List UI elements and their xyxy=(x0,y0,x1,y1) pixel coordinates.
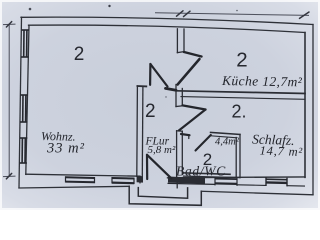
svg-text:2: 2 xyxy=(236,49,247,72)
svg-text:4,4m²: 4,4m² xyxy=(215,137,240,148)
svg-text:33 m²: 33 m² xyxy=(46,141,85,157)
svg-text:2: 2 xyxy=(145,101,156,122)
svg-text:Bad/WC: Bad/WC xyxy=(176,164,226,179)
svg-text:5,8 m²: 5,8 m² xyxy=(148,144,176,156)
svg-text:2.: 2. xyxy=(232,102,247,122)
svg-text:14,7 m²: 14,7 m² xyxy=(259,143,303,159)
svg-text:2: 2 xyxy=(74,44,85,65)
svg-text:Küche 12,7m²: Küche 12,7m² xyxy=(221,73,303,89)
